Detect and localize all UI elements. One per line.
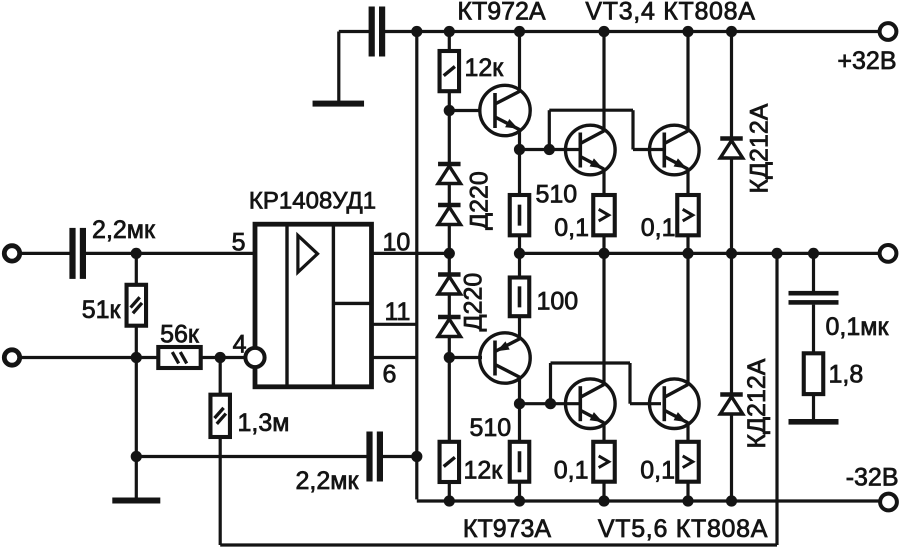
svg-text:-32В: -32В [846,464,899,492]
svg-text:0,1: 0,1 [640,457,675,485]
svg-text:0,1: 0,1 [554,214,589,242]
svg-text:100: 100 [537,288,579,316]
svg-text:0,1: 0,1 [641,214,676,242]
svg-text:510: 510 [470,414,512,442]
svg-text:VT5,6 КТ808А: VT5,6 КТ808А [598,515,768,543]
svg-text:56к: 56к [160,321,200,349]
svg-text:КР1408УД1: КР1408УД1 [249,188,376,215]
svg-text:КТ972А: КТ972А [457,0,546,26]
svg-text:VT3,4 КТ808А: VT3,4 КТ808А [585,0,755,26]
svg-text:510: 510 [536,181,578,209]
svg-text:0,1: 0,1 [554,457,589,485]
svg-text:12к: 12к [465,54,505,82]
svg-text:2,2мк: 2,2мк [92,216,156,244]
svg-text:4: 4 [233,331,247,359]
svg-text:11: 11 [385,298,411,326]
svg-text:51к: 51к [82,296,122,324]
svg-text:10: 10 [383,229,411,257]
svg-text:КТ973А: КТ973А [463,515,552,543]
svg-text:5: 5 [232,229,246,257]
svg-text:2,2мк: 2,2мк [296,467,360,495]
svg-text:1,3м: 1,3м [238,409,290,437]
svg-text:КД212А: КД212А [743,358,771,448]
svg-text:+32В: +32В [837,47,896,75]
svg-text:Д220: Д220 [460,273,488,332]
svg-text:КД212А: КД212А [746,103,774,193]
svg-text:1,8: 1,8 [829,361,864,389]
svg-text:12к: 12к [464,457,504,485]
svg-text:Д220: Д220 [466,171,494,230]
svg-text:0,1мк: 0,1мк [826,313,890,341]
svg-text:6: 6 [383,361,397,389]
